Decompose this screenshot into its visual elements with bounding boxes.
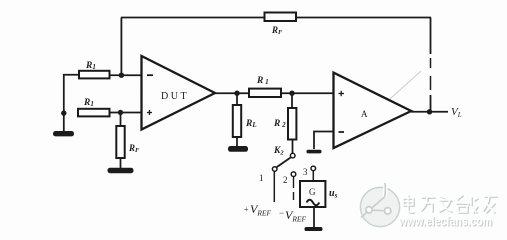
resistor RF (vertical, left) — [116, 126, 140, 158]
svg-text:+: + — [244, 205, 249, 214]
wire R2 bottom lead to switch pivot — [292, 140, 294, 154]
resistor R1 (bottom left) — [78, 98, 110, 116]
ground (below G source) — [305, 227, 323, 231]
svg-text:A: A — [361, 109, 368, 119]
node DUT plus input junction — [118, 110, 123, 115]
ground (left input network) — [53, 131, 74, 136]
wire G box to ground — [313, 207, 315, 227]
svg-text:R 1: R 1 — [256, 76, 269, 86]
ground (below RL) — [228, 146, 248, 152]
wire A minus input to ground — [314, 132, 334, 150]
svg-text:−: − — [279, 208, 284, 218]
resistor RF (top feedback) — [265, 13, 297, 37]
resistor RL — [233, 105, 257, 137]
watermark logo circle — [360, 183, 399, 227]
wire bottom R1 right lead to DUT plus input — [110, 112, 142, 114]
svg-text:R 2: R 2 — [273, 119, 286, 129]
wire top R1 right lead to DUT minus input — [110, 74, 142, 76]
wire A output to VL — [411, 111, 448, 113]
wire top R1 left lead + left vertical — [64, 75, 79, 113]
node A output junction — [427, 109, 432, 114]
svg-text:G: G — [309, 187, 316, 197]
node DUT minus input junction — [119, 73, 124, 78]
ground (below vertical RF) — [108, 168, 134, 173]
node R2 top junction — [289, 91, 294, 96]
wire RF vertical top lead — [120, 113, 122, 127]
svg-text:www.elecfans.com: www.elecfans.com — [398, 215, 492, 229]
svg-text:RL: RL — [245, 119, 257, 129]
wire ground stem left — [63, 113, 65, 131]
wire feedback right vertical (partly broken scan) — [430, 18, 432, 113]
ground (A minus input) — [307, 150, 322, 154]
svg-text:R1: R1 — [83, 98, 94, 108]
svg-text:DUT: DUT — [161, 91, 189, 102]
resistor R1 (middle horizontal) — [249, 76, 281, 97]
source G box — [300, 181, 325, 207]
node DUT output junction — [234, 91, 239, 96]
wire top feedback horizontal — [121, 17, 431, 19]
wire switch contact2 down to -VREF (broken) — [293, 177, 295, 200]
svg-text:3: 3 — [303, 167, 308, 177]
scan artifact diagonal near A apex — [390, 71, 421, 99]
svg-text:1: 1 — [259, 173, 264, 183]
wire DUT output to A plus input — [215, 92, 333, 94]
switch K2 — [272, 146, 315, 177]
resistor R1 (top left) — [79, 61, 110, 78]
node left input junction — [61, 110, 66, 115]
wire RF vertical bottom lead — [120, 158, 122, 168]
svg-text:2: 2 — [283, 175, 288, 185]
resistor R2 — [273, 108, 296, 140]
wire R2 top lead — [291, 93, 293, 108]
wire RL top lead — [236, 93, 238, 105]
svg-text:R1: R1 — [85, 61, 96, 71]
watermark text (hanzi-style doodles, embossed) — [403, 195, 497, 213]
wire feedback left vertical — [120, 18, 122, 76]
op-amp DUT — [142, 56, 216, 130]
wire switch contact1 down to +VREF — [273, 171, 275, 202]
wire switch contact3 down to G box — [312, 171, 314, 181]
op-amp A — [334, 73, 412, 148]
wire RL bottom lead — [236, 137, 238, 146]
